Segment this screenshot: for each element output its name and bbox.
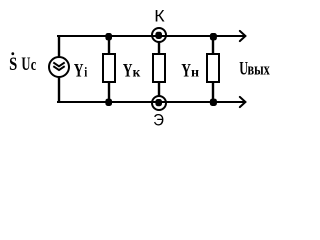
node dot K	[155, 32, 162, 39]
current source U1	[49, 57, 69, 77]
node dot Yi top	[105, 33, 112, 40]
wire source branch bottom	[58, 77, 60, 103]
wire source branch top	[58, 35, 60, 57]
arrow bottom output	[240, 97, 246, 107]
wire Yk branch bottom	[158, 82, 160, 96]
dot above S	[11, 52, 14, 55]
wire Yk branch top	[158, 42, 160, 54]
wire Yi branch top	[108, 36, 110, 54]
node dot E	[155, 99, 162, 106]
admittance Yi	[103, 54, 115, 82]
node dot Yi bottom	[105, 99, 112, 106]
svg-text:U: U	[21, 55, 30, 75]
label Yn	[181, 61, 199, 82]
svg-text:к: к	[133, 64, 141, 79]
svg-text:Y: Y	[123, 61, 133, 82]
label source S·Uc	[9, 53, 36, 75]
svg-text:Y: Y	[74, 61, 84, 82]
admittance Yn load	[207, 54, 219, 82]
svg-text:S: S	[9, 53, 17, 74]
label Yk	[123, 61, 141, 82]
node dot Yn bottom	[210, 99, 217, 106]
label Uvyh output voltage	[239, 59, 270, 79]
admittance Yk	[153, 54, 165, 82]
wire Yn branch top	[212, 36, 214, 54]
svg-text:c: c	[31, 56, 37, 74]
svg-text:U: U	[239, 59, 248, 79]
node dot Yn top	[210, 33, 217, 40]
svg-text:вых: вых	[248, 61, 271, 79]
wire Yi branch bottom	[108, 82, 110, 102]
wire bottom rail	[57, 101, 244, 103]
svg-text:i: i	[84, 64, 87, 80]
node E terminal circle	[152, 96, 166, 110]
wire Yn branch bottom	[212, 82, 214, 102]
wire top rail	[57, 35, 244, 37]
svg-text:н: н	[191, 66, 199, 81]
node K terminal circle	[152, 28, 166, 42]
svg-text:К: К	[154, 6, 164, 25]
svg-text:Y: Y	[181, 61, 191, 82]
svg-text:Э: Э	[153, 112, 164, 130]
arrow top output	[240, 31, 246, 41]
label Yi	[74, 61, 88, 82]
